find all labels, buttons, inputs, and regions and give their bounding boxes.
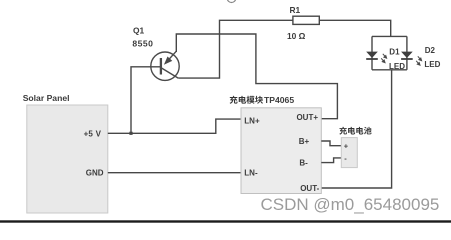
resistor R1 body (293, 16, 319, 24)
wire R1 to LED pair (319, 20, 390, 36)
wire collector to R1 (178, 20, 293, 78)
svg-text:+: + (344, 141, 349, 150)
svg-text:LED: LED (389, 62, 405, 71)
svg-text:D1: D1 (389, 48, 400, 57)
wire B+ to battery (321, 141, 341, 146)
LED D1 diode (366, 52, 378, 59)
LED D1 light arrows (381, 54, 386, 63)
transistor Q1 emitter diagonal with arrow (167, 51, 176, 61)
node base junction (129, 132, 132, 135)
module TP4065 box (241, 108, 321, 194)
wire LED bottom rail (372, 69, 407, 71)
svg-text:10 Ω: 10 Ω (287, 31, 306, 41)
svg-text:+5 V: +5 V (84, 129, 102, 138)
battery box (341, 138, 357, 168)
module label: 充电模块TP4065 (230, 95, 295, 105)
battery label: 充电电池 (339, 127, 371, 135)
solar panel box (27, 105, 108, 213)
bottom divider line (0, 220, 451, 222)
svg-text:CSDN @m0_65480095: CSDN @m0_65480095 (261, 195, 440, 214)
svg-text:Solar Panel: Solar Panel (23, 93, 70, 103)
svg-text:Q1: Q1 (133, 26, 145, 36)
wire base: junction up to transistor base (131, 67, 160, 134)
svg-text:TP4065: TP4065 (264, 95, 294, 105)
wire B- to battery (321, 158, 341, 163)
svg-text:GND: GND (86, 169, 104, 178)
transistor Q1 base bar (160, 58, 162, 75)
wire LED right branch (406, 36, 408, 69)
svg-text:D2: D2 (425, 46, 436, 55)
svg-text:LED: LED (424, 60, 440, 69)
svg-text:OUT-: OUT- (300, 184, 319, 193)
transistor Q1 circle (151, 52, 179, 80)
transistor Q1 collector diagonal (162, 68, 179, 78)
svg-text:8550: 8550 (132, 39, 153, 49)
svg-text:LN-: LN- (244, 169, 258, 178)
wire LED top rail (372, 35, 407, 37)
svg-text:LN+: LN+ (244, 117, 260, 126)
svg-text:B-: B- (299, 159, 308, 168)
wire emitter to OUT+ (176, 34, 337, 119)
svg-text:R1: R1 (290, 5, 301, 15)
LED D2 diode (401, 52, 413, 59)
LED D2 light arrows (416, 56, 421, 65)
top terminal circle (cropped) (227, 0, 236, 3)
svg-text:OUT+: OUT+ (296, 113, 318, 122)
wire GND: solar GND to module LN- (108, 172, 241, 174)
wire +5V rail: solar +5V to module LN+ (108, 119, 241, 133)
svg-text:B+: B+ (299, 137, 310, 146)
wire LED left branch (371, 36, 373, 69)
wire LED output to OUT- (321, 70, 391, 188)
